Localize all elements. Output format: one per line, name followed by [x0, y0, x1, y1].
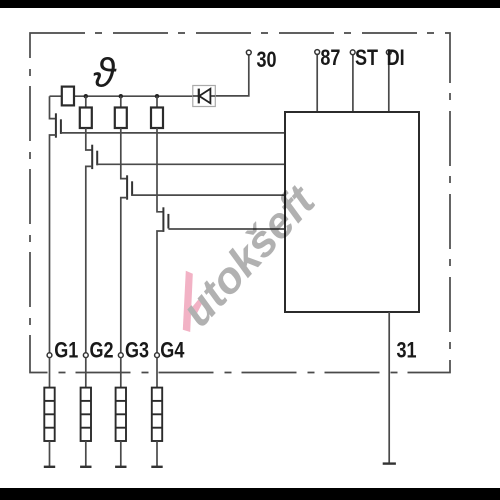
transistor T2 source	[86, 166, 92, 352]
terminal 87	[316, 54, 318, 112]
diode D1	[193, 95, 216, 97]
wire: diode to terminal 30 riser	[215, 55, 249, 96]
wire T2 gate to box	[97, 163, 285, 165]
transistor T4 drain	[157, 128, 163, 212]
svg-text:DI: DI	[387, 46, 405, 70]
control unit box U1	[285, 112, 419, 312]
wire E4 to ground	[156, 441, 158, 467]
watermark text utokseft (grey)	[172, 175, 326, 336]
diode D1 box	[193, 86, 216, 107]
watermark Autokseft	[172, 175, 326, 336]
resistor R3	[115, 108, 127, 129]
transistor T3 channel	[126, 175, 128, 199]
enclosure dash-dot border	[30, 33, 450, 373]
transistor T1 source	[50, 135, 56, 353]
svg-text:ϑ: ϑ	[93, 50, 117, 96]
bottom black bar	[0, 488, 500, 500]
watermark letter A (pink)	[183, 271, 193, 332]
wire stub to R2	[85, 96, 87, 107]
wire E2 to ground	[85, 441, 87, 467]
svg-text:87: 87	[320, 46, 340, 70]
wire T1 gate to box	[61, 132, 285, 134]
glow plug E1	[44, 388, 54, 441]
wire stub to R3	[120, 96, 122, 107]
svg-text:G2: G2	[90, 339, 114, 363]
wire G4 to plug	[156, 358, 158, 388]
ground 31	[383, 462, 396, 464]
ground E1	[44, 466, 55, 468]
transistor T1 channel	[55, 113, 57, 137]
svg-text:G3: G3	[125, 339, 149, 363]
node dot 1	[84, 94, 88, 98]
terminal G2	[83, 353, 88, 358]
resistor R4	[151, 108, 163, 129]
wire E3 to ground	[120, 441, 122, 467]
wire T4 gate to box	[168, 228, 285, 230]
svg-text:G1: G1	[54, 339, 78, 363]
transistor T4 gate	[167, 214, 169, 229]
wire G3 to plug	[120, 358, 122, 388]
terminal 30	[246, 50, 251, 55]
wire E1 to ground	[49, 441, 51, 467]
wire stub to R4	[156, 96, 158, 107]
terminal G1	[47, 353, 52, 358]
terminal G3	[118, 353, 123, 358]
wire G2 to plug	[85, 358, 87, 388]
glow plug E3	[116, 388, 126, 441]
wire G1 to plug	[49, 358, 51, 388]
node dot 2	[119, 94, 123, 98]
node dot 3	[155, 94, 159, 98]
transistor T2 drain	[86, 128, 92, 150]
transistor T3 gate	[131, 181, 133, 196]
transistor T3 drain	[121, 128, 127, 179]
terminal G4	[155, 353, 160, 358]
transistor T2 channel	[91, 145, 93, 169]
terminal ST	[352, 55, 354, 113]
transistor T2 gate	[96, 151, 98, 166]
wire: main bus left of diode	[50, 95, 193, 97]
glow plug E4	[152, 388, 162, 441]
top black bar	[0, 0, 500, 8]
label 31	[397, 339, 417, 363]
transistor T1 gate	[60, 119, 62, 134]
svg-text:30: 30	[257, 48, 277, 72]
ground E3	[115, 466, 126, 468]
glow plug E2	[81, 388, 91, 441]
svg-text:31: 31	[397, 339, 417, 363]
ground E2	[80, 466, 91, 468]
terminal DI	[388, 55, 390, 113]
transistor T4 channel	[162, 207, 164, 232]
wire T3 gate to box	[132, 194, 285, 196]
resistor R2	[80, 108, 92, 129]
transistor T4 source	[157, 231, 163, 353]
wire terminal 31	[388, 312, 390, 464]
svg-text:ST: ST	[355, 46, 379, 70]
ground E4	[151, 466, 162, 468]
svg-text:G4: G4	[160, 339, 185, 363]
transistor T1 drain	[50, 96, 56, 118]
transistor T3 source	[121, 198, 127, 353]
resistor R1 (series on bus)	[62, 87, 74, 106]
